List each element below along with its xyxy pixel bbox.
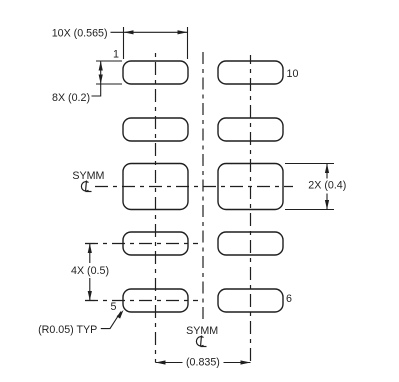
- dimension 4X line: [89, 244, 91, 264]
- pad 4: [123, 232, 188, 255]
- centerline row5: [85, 300, 198, 302]
- svg-text:4X (0.5): 4X (0.5): [71, 265, 109, 277]
- arrowhead 0.835 right: [241, 360, 251, 364]
- pad 5: [123, 289, 188, 312]
- svg-text:6: 6: [286, 293, 292, 305]
- svg-text:8X (0.2): 8X (0.2): [52, 92, 90, 104]
- svg-text:1: 1: [113, 49, 119, 61]
- dimension 8X line: [92, 61, 101, 96]
- arrowhead 2X down: [325, 200, 329, 210]
- arrowhead 4X up: [88, 244, 92, 254]
- centerline horizontal symm: [95, 186, 293, 188]
- dimension 0.835 line: [156, 362, 183, 364]
- dimension 8X extension lines: [96, 60, 122, 62]
- pad 9: [218, 118, 283, 141]
- centerline left column: [155, 53, 157, 363]
- arrowhead 2X up: [325, 164, 329, 174]
- pad 8: [218, 164, 283, 210]
- centerline right column: [250, 55, 252, 363]
- svg-text:10X (0.565): 10X (0.565): [52, 28, 108, 40]
- pad 10: [218, 61, 283, 84]
- arrowhead 10X right: [178, 30, 188, 34]
- arrowhead 4X down: [88, 291, 92, 301]
- pad 2: [123, 118, 188, 141]
- leader R0.05: [101, 312, 121, 329]
- svg-text:SYMM: SYMM: [186, 325, 218, 337]
- pad 7: [218, 232, 283, 255]
- svg-text:2X (0.4): 2X (0.4): [308, 180, 346, 192]
- arrowhead 0.835 left: [156, 360, 166, 364]
- arrowhead 10X left: [124, 30, 134, 34]
- svg-text:SYMM: SYMM: [72, 170, 104, 182]
- pad 3: [123, 164, 188, 210]
- dimension 10X extension lines: [123, 27, 125, 59]
- centerline vertical symm: [202, 52, 204, 323]
- pad 6: [218, 289, 283, 312]
- arrowhead 8X up: [99, 61, 103, 71]
- svg-text:(0.835): (0.835): [186, 357, 220, 369]
- arrowhead R0.05 leader: [117, 310, 124, 319]
- dimension 4X tick marks: [85, 243, 95, 245]
- svg-text:(R0.05) TYP: (R0.05) TYP: [38, 324, 97, 336]
- arrowhead 8X down: [99, 75, 103, 85]
- pad 1: [123, 61, 188, 84]
- dimension 2X line: [326, 164, 328, 179]
- dimension 2X extension lines: [285, 163, 334, 165]
- svg-text:10: 10: [287, 68, 299, 80]
- centerline symbol left: [81, 181, 91, 192]
- centerline symbol bottom: [196, 336, 206, 347]
- svg-text:5: 5: [111, 301, 117, 313]
- dimension 10X line: [111, 31, 188, 33]
- centerline row4: [85, 243, 198, 245]
